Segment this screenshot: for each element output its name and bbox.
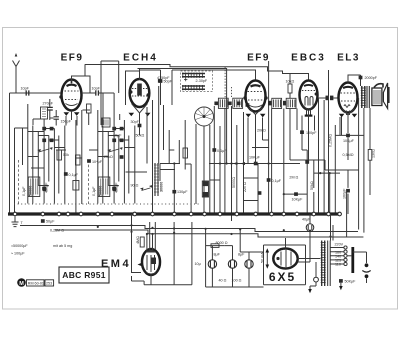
6X5 heater wires — [298, 241, 321, 263]
coupling capacitors to EL3 — [318, 96, 340, 101]
wave switch dash rod 2 — [88, 160, 90, 204]
wave switch dash rod 1 — [18, 160, 20, 204]
resistor 50k left — [57, 150, 69, 160]
volume potentiometer — [202, 181, 208, 197]
capacitor 50uF bus — [41, 219, 55, 223]
fuse — [308, 262, 318, 293]
output transformer — [361, 86, 370, 108]
duo-diode-triode V4 EBC3 — [300, 81, 318, 117]
svg-text:450pF: 450pF — [45, 182, 49, 193]
capacitor screen V3 — [212, 148, 227, 153]
svg-text:50000: 50000 — [29, 186, 33, 196]
svg-text:2M Ω: 2M Ω — [289, 176, 298, 180]
antenna — [13, 53, 20, 93]
capacitor 270pF — [43, 99, 54, 120]
svg-text:50kΩ: 50kΩ — [310, 181, 314, 190]
EM4 rail dots — [130, 224, 175, 235]
pentode V3 EF9 — [243, 81, 267, 118]
svg-text:150pF: 150pF — [61, 120, 72, 124]
note text 50000uF — [11, 244, 28, 248]
IF can MF2b — [233, 98, 250, 108]
EM4 right vertical — [174, 222, 192, 285]
MF wires down — [272, 109, 302, 215]
capacitor AVC right — [267, 178, 282, 183]
resistor below V1 anode — [87, 104, 92, 125]
tuning coil pack 1 (antenna circuit) — [28, 126, 65, 204]
coil label vertical cell1 — [29, 186, 33, 196]
6X5 label — [269, 270, 296, 284]
AVC dashed feeds — [225, 67, 231, 98]
svg-text:10KμF: 10KμF — [343, 139, 355, 143]
capacitor 4750pF — [157, 76, 170, 83]
resistor screen V1 — [76, 155, 81, 165]
capacitor 0,1uF left — [64, 172, 79, 177]
tube label ECH4 (V2) — [123, 53, 158, 64]
capacitor 50KpF mains — [339, 279, 356, 284]
svg-text:100pF: 100pF — [306, 131, 317, 135]
IF transformer MF1 — [181, 71, 213, 92]
svg-text:0,1μF: 0,1μF — [272, 179, 282, 183]
svg-text:RM 60-01: RM 60-01 — [28, 282, 44, 286]
svg-text:6X5: 6X5 — [269, 270, 296, 284]
resistor 40ohm label — [219, 279, 227, 283]
svg-text:mit ab 5 mg: mit ab 5 mg — [53, 244, 72, 248]
svg-text:EL3: EL3 — [337, 53, 360, 64]
wire antenna to grid cap — [16, 92, 62, 94]
resistor label right of EBC3 — [310, 181, 314, 190]
capacitor 0,25uF cell1 — [22, 182, 49, 196]
svg-text:M: M — [19, 281, 24, 287]
mid verticals center — [210, 106, 269, 221]
svg-text:20kΩ: 20kΩ — [257, 129, 266, 133]
label 25k — [104, 155, 113, 159]
svg-text:25kΩ: 25kΩ — [104, 155, 113, 159]
svg-text:10pF: 10pF — [92, 87, 101, 91]
triode-hexode V2 ECH4 — [129, 79, 151, 116]
capacitor 0,25uF cell2 — [92, 182, 119, 196]
resistor 90ohm label — [126, 172, 148, 188]
capacitor 150pF — [54, 110, 72, 126]
oscillator section verticals — [147, 86, 164, 214]
resistor 0.25M vertical label — [329, 134, 333, 147]
svg-text:EBC3: EBC3 — [291, 53, 326, 64]
mid rail y163.5 left — [160, 120, 185, 181]
mains leads — [353, 252, 371, 283]
svg-text:30pF: 30pF — [131, 120, 140, 124]
left vertical 3 — [15, 128, 28, 165]
svg-text:ECH4: ECH4 — [123, 53, 158, 64]
svg-text:4MΩ: 4MΩ — [136, 236, 140, 244]
pentode V1 EF9 — [59, 80, 81, 116]
label 5000ohm vertical — [232, 177, 236, 188]
resistor 4M — [136, 236, 144, 247]
resistor 0,5M label — [343, 153, 354, 157]
svg-text:50k: 50k — [63, 153, 69, 157]
capacitor 2000pF — [359, 76, 378, 80]
V3 below wires — [248, 61, 269, 164]
magic eye V6 EM4 — [138, 249, 161, 275]
svg-text:EF9: EF9 — [61, 53, 84, 64]
coil label vertical cell2 — [99, 186, 103, 196]
padder capacitor 130pF — [172, 164, 188, 214]
det branch box — [243, 164, 261, 201]
svg-text:EF9: EF9 — [247, 53, 270, 64]
svg-text:50μF: 50μF — [46, 220, 55, 224]
EM4 circuit wires — [132, 214, 175, 285]
detector line — [209, 162, 300, 165]
svg-text:10μ: 10μ — [195, 262, 201, 266]
svg-text:EM4: EM4 — [101, 258, 131, 270]
svg-text:8μF: 8μF — [238, 253, 245, 257]
transformer taps — [330, 246, 347, 267]
svg-text:130Ω: 130Ω — [372, 149, 376, 158]
capacitor 10pF V1 anode — [82, 87, 115, 96]
lower rail 2 — [55, 230, 363, 237]
svg-text:253: 253 — [46, 282, 52, 286]
svg-text:450pF: 450pF — [115, 182, 119, 193]
chassis bus — [8, 212, 340, 215]
IF transformer MF3 — [268, 98, 282, 108]
V5 cathode wires — [302, 115, 348, 170]
loudspeaker — [372, 83, 389, 109]
capacitor diode load — [305, 160, 309, 164]
svg-text:0,1μF: 0,1μF — [217, 149, 227, 153]
resistor label 0,25M under bus — [50, 228, 64, 232]
antenna feed vertical — [10, 93, 17, 214]
top rail A — [85, 65, 309, 81]
svg-text:90 Ω: 90 Ω — [131, 184, 139, 188]
svg-text:50KμF: 50KμF — [345, 280, 357, 284]
svg-text:ABC R951: ABC R951 — [62, 270, 106, 280]
cell1 top links — [28, 104, 54, 129]
resistor 100ohm label — [232, 279, 242, 283]
tube label EF9 (V3) — [247, 53, 270, 64]
svg-text:0,5MΩ: 0,5MΩ — [343, 153, 354, 157]
left vertical 2 — [14, 128, 16, 214]
svg-text:10KμF: 10KμF — [292, 197, 304, 201]
rectifier verticals — [206, 229, 264, 287]
resistor 130ohm — [368, 149, 375, 160]
svg-text:0,1μF: 0,1μF — [92, 186, 96, 196]
rail y173 right — [314, 160, 340, 214]
maker logo — [17, 278, 53, 287]
capacitor 160pF right — [343, 188, 350, 199]
gang wires — [185, 124, 204, 214]
50mA arrow — [261, 248, 270, 268]
resistor 10k V3 screen — [286, 74, 295, 99]
svg-text:10KμF: 10KμF — [249, 155, 261, 159]
jog wires mid — [31, 150, 220, 180]
transformer feed from rails — [347, 192, 364, 237]
tube label EL3 (V5) — [337, 53, 360, 64]
ground symbol — [12, 217, 24, 227]
cell2 left verticals — [76, 110, 90, 214]
svg-text:100 Ω: 100 Ω — [232, 279, 242, 283]
svg-text:0,1μF: 0,1μF — [22, 186, 26, 196]
EM4 label — [101, 258, 131, 270]
V4 below wires — [302, 111, 315, 161]
IF can MF2a — [214, 98, 231, 108]
svg-text:50000: 50000 — [99, 186, 103, 196]
top rail D — [172, 70, 256, 105]
lower rail 1 — [20, 226, 358, 232]
tube label EBC3 (V4) — [291, 53, 326, 64]
output pentode V5 EL3 — [339, 83, 358, 118]
capacitor 30pF below ECH4 — [131, 113, 142, 135]
capacitor 100pF — [300, 130, 317, 214]
note text mid — [53, 244, 72, 248]
capacitor 10KpF detector — [249, 155, 261, 165]
cell2 top links — [98, 93, 125, 129]
rail y135 right — [335, 134, 364, 136]
AVC resistor 20k — [252, 121, 269, 148]
capacitor at cell2 out — [120, 155, 124, 159]
svg-text:0,25MΩ: 0,25MΩ — [329, 134, 333, 147]
note text 100uF — [11, 252, 25, 256]
capacitor 104uF — [87, 159, 103, 164]
osc resistor labels — [113, 134, 144, 138]
bus junctions — [13, 212, 341, 216]
osc trimmer arrows — [140, 185, 152, 191]
6X5 cell outline — [264, 238, 306, 285]
wave switch dotted line — [14, 203, 200, 205]
grid leak resistor — [41, 107, 48, 119]
svg-text:≈ 100μF: ≈ 100μF — [11, 252, 25, 256]
top rail C — [138, 69, 227, 164]
rail y170 right — [325, 169, 359, 171]
capacitor 10pF antenna — [21, 87, 30, 96]
osc coil vertical label — [154, 163, 164, 196]
resistor 2M — [284, 176, 307, 215]
V1 top cap wire — [72, 64, 91, 93]
electrolytic capacitor 8uF b — [228, 253, 245, 269]
power transformer windings — [321, 241, 331, 287]
V2 top cap wire — [126, 69, 140, 106]
svg-text:40 Ω: 40 Ω — [219, 279, 227, 283]
top rail B — [101, 61, 119, 125]
capacitor 50pF osc — [140, 70, 173, 105]
tube label EF9 (V1) — [61, 53, 84, 64]
junction dots detector — [173, 162, 285, 195]
ABC R951 label box — [59, 267, 109, 283]
capacitor 10KpF right — [343, 134, 355, 143]
voltage selector bar — [347, 247, 353, 273]
transformer top leads — [331, 214, 344, 247]
svg-text:4750pF: 4750pF — [157, 76, 170, 80]
svg-text:160pF: 160pF — [343, 188, 347, 199]
right column verticals — [319, 70, 371, 233]
svg-text:8μF: 8μF — [214, 253, 221, 257]
tuning gang capacitor — [195, 107, 214, 126]
svg-text:10μF: 10μF — [113, 134, 122, 138]
V5 top wire — [348, 75, 361, 86]
IF transformer MF4 — [283, 98, 296, 108]
svg-text:≈50000μF: ≈50000μF — [11, 244, 28, 248]
rectifier V7 6X5 — [273, 249, 297, 269]
svg-text:130μF: 130μF — [177, 190, 188, 194]
svg-text:2000pF: 2000pF — [365, 76, 378, 80]
resistor cell2 left — [73, 181, 79, 191]
resistor osc anode — [183, 148, 188, 158]
rail junction dots — [97, 226, 332, 238]
svg-text:5000Ω: 5000Ω — [232, 177, 236, 188]
V1 cathode stubs — [66, 111, 77, 126]
rectifier filter: resistor 8000ohm — [206, 241, 228, 248]
svg-text:220V: 220V — [335, 243, 344, 247]
svg-text:270pF: 270pF — [43, 101, 54, 105]
svg-text:10⁴μF: 10⁴μF — [92, 160, 103, 164]
electrolytic capacitor 8uF c — [245, 260, 253, 268]
svg-text:30000: 30000 — [160, 182, 164, 192]
electrolytic 40uF — [302, 214, 314, 241]
coil rect above cell2 — [102, 118, 110, 127]
capacitor 10uF EM4 — [195, 262, 201, 266]
rectifier bottom rail — [206, 286, 264, 288]
transformer ground arrow — [339, 283, 343, 291]
electrolytic capacitor 8uF a — [208, 253, 220, 269]
svg-text:0,1μF: 0,1μF — [69, 173, 79, 177]
tuning coil pack 2 (RF interstage) — [98, 126, 135, 204]
svg-text:2-30pF: 2-30pF — [196, 79, 208, 83]
svg-text:220 Ω: 220 Ω — [243, 182, 247, 192]
svg-text:10pF: 10pF — [21, 87, 30, 91]
